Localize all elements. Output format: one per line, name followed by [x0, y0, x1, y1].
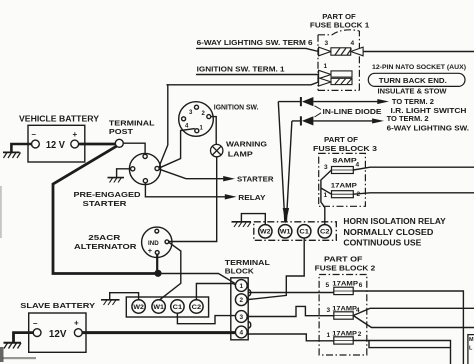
svg-text:4: 4 — [356, 162, 360, 169]
svg-text:12 V: 12 V — [46, 139, 65, 151]
svg-text:12-PIN NATO SOCKET (AUX): 12-PIN NATO SOCKET (AUX) — [372, 64, 466, 71]
wire fuse block 1 pin 4 output — [363, 51, 474, 53]
fuse block 3 box — [319, 153, 366, 206]
V wedge at W1 — [283, 208, 289, 224]
svg-text:5: 5 — [326, 282, 330, 289]
svg-text:FUSE BLOCK 3: FUSE BLOCK 3 — [313, 144, 377, 153]
svg-text:IN-LINE DIODE: IN-LINE DIODE — [323, 109, 382, 116]
svg-text:RELAY: RELAY — [238, 193, 265, 202]
svg-text:–: – — [33, 319, 38, 328]
svg-text:W2: W2 — [260, 229, 271, 236]
svg-text:LAMP: LAMP — [228, 150, 253, 159]
svg-text:17AMP: 17AMP — [332, 330, 357, 337]
wire ignition pin 1 to starter — [160, 129, 195, 168]
wire line B W1 to diode 2 — [286, 121, 301, 223]
wire ignition pin 2 to warning lamp — [211, 117, 216, 145]
fuse F3-8amp — [332, 167, 354, 174]
warning lamp — [211, 144, 223, 156]
wire line A W1 to diode 1 — [278, 102, 301, 223]
svg-text:4: 4 — [356, 307, 360, 314]
fuse block 2 box — [319, 275, 367, 356]
wire starter feed to fuse block 1 lower pin 1 fuse — [167, 82, 319, 85]
svg-text:C1: C1 — [173, 304, 183, 311]
bottom terminal strip — [126, 297, 208, 317]
svg-text:TO TERM. 2: TO TERM. 2 — [392, 97, 434, 106]
svg-text:W1: W1 — [153, 304, 164, 311]
wire TB tab to fuse block 2 row 1 — [248, 292, 334, 294]
wire starter right pin riser — [159, 85, 168, 168]
svg-text:NORMALLY CLOSED: NORMALLY CLOSED — [343, 228, 433, 237]
svg-text:W1: W1 — [280, 229, 291, 236]
arrow RELAY — [225, 194, 237, 199]
svg-text:1: 1 — [324, 63, 328, 70]
pre-engaged starter — [129, 153, 160, 184]
wire C1 bottom to TB3 — [177, 313, 235, 324]
svg-text:17AMP: 17AMP — [331, 183, 358, 190]
wire alternator plus to junction — [156, 254, 158, 270]
svg-text:SLAVE BATTERY: SLAVE BATTERY — [20, 301, 95, 310]
svg-text:6: 6 — [359, 282, 363, 289]
fuse F2 row1 — [334, 287, 353, 344]
svg-text:3: 3 — [325, 40, 329, 47]
arrow STARTER — [223, 176, 235, 181]
ignition switch U1 — [179, 102, 214, 137]
ignition pin numbers — [185, 110, 206, 132]
callout lines in-line diode — [315, 106, 322, 117]
svg-text:12V: 12V — [49, 328, 67, 340]
bottom strip ground — [101, 293, 139, 305]
wire 6-way lighting sw term 6 to fuse block 1 pin 3 — [197, 48, 319, 51]
W2 mid ground — [232, 214, 266, 227]
svg-text:2: 2 — [357, 191, 361, 198]
wire C1 mid to terminal block 2 — [248, 238, 304, 300]
svg-text:C1: C1 — [299, 229, 309, 236]
svg-text:CONTINUOUS USE: CONTINUOUS USE — [343, 239, 422, 248]
svg-text:3: 3 — [327, 307, 331, 314]
wire battery plus to terminal post (heavy) — [78, 143, 115, 146]
wire TB4 to fuse block 2 row 3 — [248, 334, 334, 341]
fuse F1-1 arrows and fuses — [319, 70, 352, 86]
diode D1 — [300, 97, 314, 106]
mid terminal strip box — [254, 222, 336, 241]
svg-text:PRE-ENGAGED: PRE-ENGAGED — [74, 190, 142, 199]
svg-text:3: 3 — [324, 164, 328, 171]
vehicle battery ground — [3, 144, 32, 158]
svg-text:FUSE BLOCK 2: FUSE BLOCK 2 — [315, 264, 376, 273]
svg-text:4: 4 — [351, 40, 355, 47]
svg-text:HORN ISOLATION RELAY: HORN ISOLATION RELAY — [343, 217, 446, 226]
right edge box — [468, 335, 474, 364]
alternator labels — [148, 240, 159, 255]
svg-text:WARNING: WARNING — [226, 140, 267, 149]
wire terminal post to starter top pin — [123, 143, 145, 154]
svg-text:C2: C2 — [320, 229, 330, 236]
vehicle battery — [28, 125, 85, 162]
svg-text:1: 1 — [327, 332, 331, 339]
scan artifact streaks — [0, 347, 4, 362]
wire ignition sw term 1 to fuse block 1 pin 1 — [197, 74, 319, 76]
terminal block — [231, 278, 248, 340]
mid strip terminals — [259, 225, 332, 238]
wire C2 bottom to TB1 — [196, 284, 235, 300]
fuse block 2 outputs — [353, 291, 474, 364]
svg-text:–: – — [32, 130, 37, 139]
wire starter bottom pin to RELAY arrow — [145, 183, 225, 197]
svg-text:25ACR: 25ACR — [88, 233, 121, 242]
svg-text:PART OF: PART OF — [324, 255, 363, 264]
svg-text:17AMP: 17AMP — [332, 305, 357, 312]
svg-text:FUSE BLOCK 1: FUSE BLOCK 1 — [310, 21, 370, 30]
svg-text:+: + — [148, 246, 153, 255]
svg-text:TO TERM. 2: TO TERM. 2 — [387, 114, 429, 123]
svg-text:BLOCK: BLOCK — [225, 267, 255, 276]
svg-text:C2: C2 — [192, 304, 202, 311]
fuse F1-3/4 arrows and fuse — [319, 47, 364, 56]
fuse block 1 box — [318, 30, 359, 91]
slave battery — [29, 313, 86, 352]
svg-text:2: 2 — [358, 331, 362, 338]
svg-text:PART OF: PART OF — [324, 135, 358, 144]
fuse F3-17amp — [332, 191, 354, 198]
svg-text:6-WAY LIGHTING SW.: 6-WAY LIGHTING SW. — [387, 123, 469, 132]
svg-text:STARTER: STARTER — [237, 175, 274, 184]
svg-text:8AMP: 8AMP — [333, 158, 358, 165]
svg-text:17AMP: 17AMP — [332, 281, 358, 288]
slave battery ground — [4, 333, 34, 349]
wire warning lamp to alternator IND — [169, 157, 217, 242]
svg-text:W2: W2 — [133, 304, 144, 311]
svg-text:2: 2 — [240, 297, 244, 304]
svg-text:1: 1 — [240, 283, 244, 290]
svg-text:+: + — [74, 319, 79, 328]
svg-text:TURN BACK END.: TURN BACK END. — [379, 76, 447, 85]
svg-text:1: 1 — [324, 192, 328, 199]
wire junction to terminal block 1 — [158, 274, 235, 284]
alternator — [142, 227, 172, 257]
wire alternator IND to W1 bottom strip — [159, 242, 181, 300]
svg-text:+: + — [73, 130, 78, 139]
wire C2 mid to fuse block 3 — [321, 170, 332, 225]
wire TB3 to fuse block 2 row 2 — [247, 306, 333, 316]
starter ground — [108, 169, 131, 183]
TURN BACK END stadium — [368, 73, 465, 86]
heavy cable slave battery to TB4 — [82, 331, 236, 334]
diode D2 — [300, 116, 314, 125]
terminal post — [115, 139, 123, 147]
svg-text:IGNITION SW. TERM. 1: IGNITION SW. TERM. 1 — [197, 64, 286, 73]
svg-text:VEHICLE BATTERY: VEHICLE BATTERY — [19, 115, 100, 124]
wire starter to STARTER arrow — [159, 169, 223, 179]
svg-text:4: 4 — [240, 329, 244, 336]
svg-text:M: M — [469, 337, 474, 343]
svg-text:3: 3 — [240, 314, 244, 321]
heavy cable terminal post to junction — [53, 146, 158, 273]
svg-text:STARTER: STARTER — [83, 199, 128, 208]
svg-text:INSULATE & STOW: INSULATE & STOW — [378, 89, 447, 96]
svg-text:6-WAY LIGHTING SW. TERM 6: 6-WAY LIGHTING SW. TERM 6 — [197, 38, 313, 47]
battery signs and values — [32, 130, 80, 340]
junction node — [154, 270, 161, 277]
svg-text:POST: POST — [109, 127, 133, 136]
fuse amp labels and pins — [324, 40, 474, 352]
svg-text:IGNITION SW.: IGNITION SW. — [214, 102, 259, 111]
svg-text:ALTERNATOR: ALTERNATOR — [74, 242, 137, 251]
